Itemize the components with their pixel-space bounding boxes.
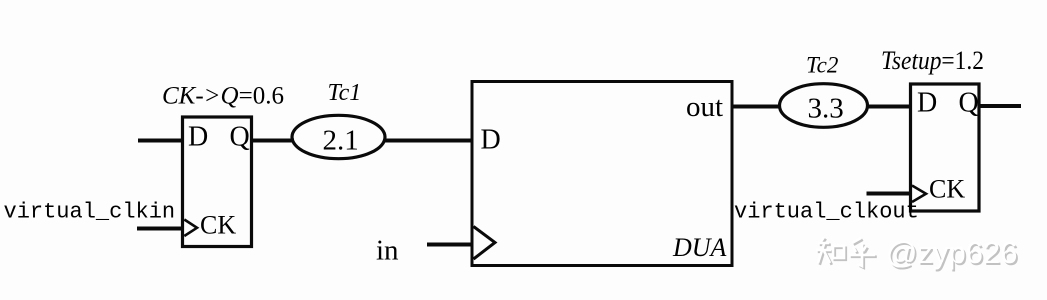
svg-text:Q: Q [959, 88, 979, 119]
svg-text:D: D [917, 88, 937, 119]
wire FF2.Q output [979, 104, 1021, 108]
watermark 知 (gray shadow layer) [818, 239, 877, 268]
net delay ellipse Tc1 [292, 115, 385, 158]
svg-text:in: in [376, 235, 399, 267]
flip-flop FF2 (capture flop) box [911, 84, 980, 211]
block DUA box [472, 82, 732, 266]
wire Tc2 to FF2.D [867, 105, 913, 109]
clock triangle of DUA [474, 227, 496, 260]
svg-text:virtual_clkout: virtual_clkout [734, 200, 919, 225]
net delay ellipse Tc2 [780, 84, 868, 128]
flip-flop FF1 (launch flop) box [183, 117, 252, 247]
clock triangle of FF2 [912, 186, 926, 203]
svg-text:CK: CK [929, 175, 965, 204]
svg-text:virtual_clkin: virtual_clkin [4, 200, 176, 225]
wire D input of FF1 [138, 139, 183, 143]
wire DUA.out to Tc2 [732, 105, 781, 109]
svg-text:Tsetup=1.2: Tsetup=1.2 [881, 46, 984, 75]
svg-text:D: D [188, 122, 208, 153]
wire in input of DUA [427, 243, 473, 247]
clock triangle of FF1 [184, 220, 197, 237]
svg-text:out: out [686, 91, 723, 123]
watermark 知 (white top layer) [816, 237, 875, 266]
wire CK input of FF2 [867, 192, 912, 196]
wire CK input of FF1 [137, 227, 183, 231]
svg-text:Tc2: Tc2 [806, 53, 838, 78]
svg-text:CK: CK [200, 211, 236, 240]
svg-text:2.1: 2.1 [323, 125, 359, 157]
svg-text:D: D [481, 125, 501, 156]
svg-text:DUA: DUA [672, 233, 727, 262]
svg-text:@zyp626: @zyp626 [886, 235, 1017, 270]
wire Tc1 to DUA.D [385, 139, 474, 143]
svg-text:CK->Q=0.6: CK->Q=0.6 [162, 83, 284, 110]
svg-text:Q: Q [230, 122, 250, 153]
svg-text:3.3: 3.3 [808, 93, 844, 125]
svg-text:Tc1: Tc1 [328, 80, 362, 106]
wire FF1.Q to Tc1 [252, 139, 295, 143]
